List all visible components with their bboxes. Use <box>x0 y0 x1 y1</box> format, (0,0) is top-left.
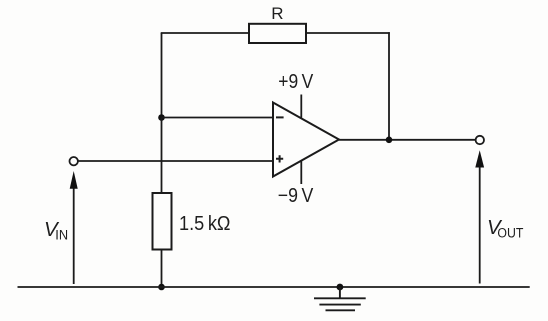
svg-text:1.5 kΩ: 1.5 kΩ <box>179 213 231 235</box>
wire: top horizontal left segment to resistor R <box>161 32 249 34</box>
pin label: inverting minus <box>276 116 284 118</box>
svg-text:−9 V: −9 V <box>278 185 314 207</box>
svg-text:OUT: OUT <box>497 225 523 240</box>
junction dot: output node <box>386 137 393 144</box>
svg-text:R: R <box>271 4 283 23</box>
output terminal <box>476 136 484 144</box>
resistor R <box>249 24 306 43</box>
wire: feedback node up left vertical <box>161 33 163 118</box>
junction dot: ground symbol node <box>337 284 344 291</box>
resistor 1.5 kOhm <box>153 193 172 250</box>
arrow shaft: Vin <box>73 189 75 285</box>
svg-text:+9 V: +9 V <box>278 71 314 93</box>
arrowhead: Vin <box>70 171 78 189</box>
svg-text:IN: IN <box>55 226 68 242</box>
input terminal <box>70 157 78 165</box>
pin label: non-inverting plus <box>276 155 283 162</box>
ground symbol <box>314 287 366 310</box>
ground rail <box>18 286 530 288</box>
wire: inverting input to op-amp <box>162 117 273 119</box>
wire: top horizontal right segment from resistor R <box>306 32 390 34</box>
wire: 1.5k resistor down to ground rail <box>161 250 163 288</box>
arrowhead: Vout <box>475 150 484 167</box>
wire: output from op-amp to terminal <box>339 139 476 141</box>
op-amp U1 <box>273 103 339 177</box>
arrow shaft: Vout <box>479 167 481 284</box>
wire: -9V supply stub <box>300 161 302 184</box>
junction dot: resistor to ground rail <box>158 284 165 291</box>
wire: +9V supply stub <box>300 95 302 118</box>
wire: right vertical feedback down to output node <box>388 32 390 140</box>
wire: non-inverting input from terminal to op-amp <box>78 160 273 162</box>
wire: node down to 1.5k resistor <box>161 118 163 194</box>
junction dot: inverting input node <box>158 114 165 121</box>
